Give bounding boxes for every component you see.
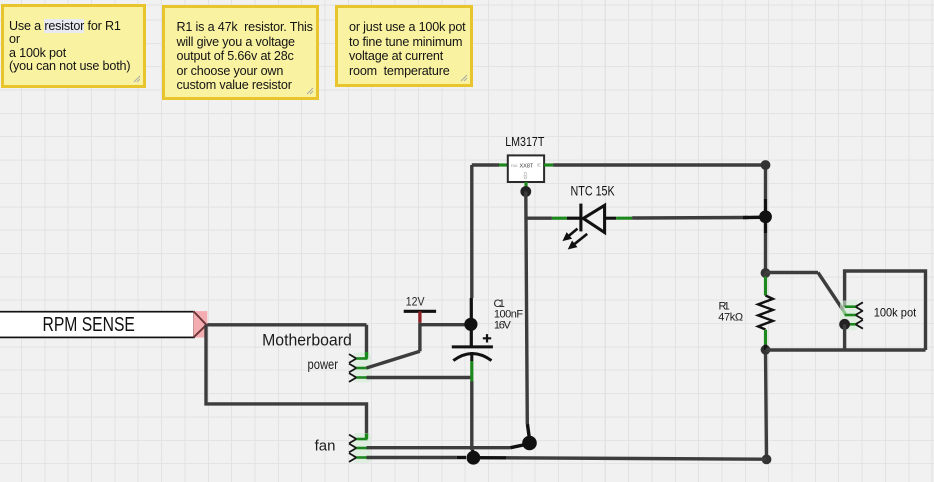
svg-text:RPM SENSE: RPM SENSE [43,314,135,336]
label LM317T [505,134,544,149]
wire: diagonal to power pin2 [367,351,420,368]
svg-text:12V: 12V [406,296,425,308]
power connector pins [349,352,371,383]
svg-text:LM317T: LM317T [505,134,544,149]
sticky note 1 [1,4,146,88]
svg-text:Motherboard: Motherboard [262,331,352,349]
svg-text:100k pot: 100k pot [874,306,917,320]
label power [308,356,339,372]
node: R1 bottom junction [761,345,771,355]
12V red stub [418,311,421,323]
wire: fan pin2 to ADJ rail [367,444,529,448]
svg-text:power: power [308,356,339,372]
sticky note 3 [335,5,473,87]
LED arrows [564,229,588,249]
svg-text:NTC 15K: NTC 15K [571,183,615,198]
node: OUT top corner [761,160,771,170]
potentiometer 100k pot wiring rectangle [845,271,926,350]
op-amp U1 LM317T body [508,155,544,182]
wire: ADJ to NTC [526,216,581,219]
capacitor C1 [452,334,493,381]
label 12V [406,296,425,308]
svg-text:fan: fan [315,438,336,455]
wire: RPM sense to motherboard top [206,323,367,326]
label R1 47k [718,301,743,324]
label C1 100nF 16V [494,298,524,331]
label 100k pot [874,306,917,320]
node: bottom right corner [762,455,772,465]
node: pot wiper dot [839,319,850,330]
svg-text:ruo: ruo [511,163,518,168]
node: NTC junction (big) [759,210,772,223]
left vertical rail (LM317 IN) [471,165,473,458]
svg-text:IE: IE [537,163,541,168]
power symbol 12V bar [404,310,436,313]
node: ADJ junction [520,186,531,197]
node: ADJ to fan pin2 [522,436,537,451]
wire: pot wiper diagonal [818,273,846,315]
diode NTC 15K (LED symbol) [581,204,616,233]
right vertical rail [766,165,767,459]
wire: LM317 OUT to right rail [544,163,765,166]
wire: power pin3 to cap bottom [367,376,472,379]
svg-text:C(D: C(D [523,172,528,179]
node: 12V / C1 junction [464,318,477,331]
svg-text:XX8T: XX8T [520,164,534,170]
motherboard outline (wire) [206,325,367,436]
wire: R1 top to pot wiper branch [766,271,819,274]
LM317 ADJ pin stub [524,182,527,187]
wire: rail to LM317 IN [472,163,508,166]
wire: NTC to right rail [616,217,765,218]
wire: 12V down [418,323,421,352]
svg-text:16V: 16V [494,319,512,331]
wire: bottom to pot [766,348,926,351]
label RPM SENSE [0,311,207,337]
sticky note 2 [162,5,319,100]
node: fan pin3 / cap rail junction [467,451,481,465]
wire: pot wiper to bottom [843,324,846,350]
node: R1 top junction [761,268,771,278]
pot pin arrows [840,301,863,331]
label Motherboard [262,331,352,349]
label fan [315,438,336,455]
svg-text:47kΩ: 47kΩ [718,312,743,324]
fan connector pins [349,433,371,463]
wire: 12V to C1 junction [420,323,468,326]
wire: ADJ rail down [526,192,529,438]
wire: fan pin3 bottom rail [367,458,767,460]
label NTC 15K [571,183,615,198]
resistor R1 [758,273,773,350]
